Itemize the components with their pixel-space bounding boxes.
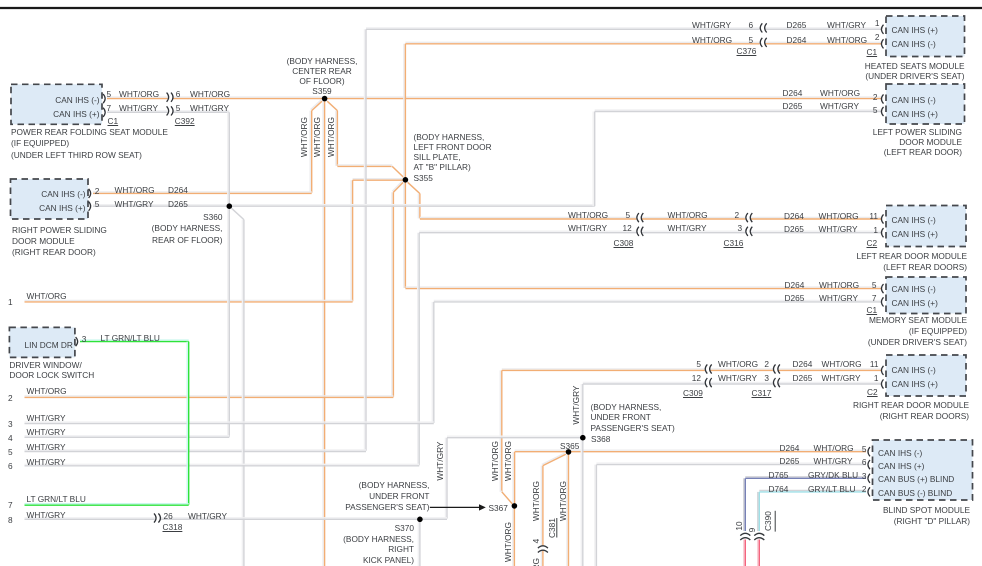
- wire WHT/ORG: S365 diagonal to C381 pin 4 off page bottom: [541, 453, 565, 566]
- pin bracket RRDM pin 1: [881, 379, 883, 388]
- label WHT/GRY blind row: [814, 456, 853, 466]
- module box: LEFT REAR DOOR MODULE: [886, 206, 966, 247]
- label WHT/GRY PRFSM row: [119, 103, 158, 113]
- label pin 4 C381: [531, 535, 541, 547]
- pin bracket LPSDM pin 5: [881, 107, 883, 116]
- label S360 (BODY HARNESS, REAR OF FLOOR): [123, 212, 223, 246]
- node 1 number: [8, 297, 13, 307]
- pin 2 blind: [861, 484, 867, 494]
- splice S360 dot: [227, 203, 233, 209]
- wire WHT/ORG: S365 down off page bottom: [567, 454, 569, 566]
- caption LEFT REAR DOOR MODULE: [800, 251, 967, 273]
- connector C390 pin 10 (vertical): [740, 533, 750, 540]
- label D264 RRDM: [793, 359, 813, 369]
- label WHT/GRY wire 6: [27, 457, 66, 467]
- pin bracket PRFSM pin 5: [103, 94, 105, 103]
- module box: BLIND SPOT MODULE: [873, 440, 973, 500]
- label CAN IHS (-) in LRDM: [892, 215, 936, 225]
- pin 5 RPSDM: [95, 199, 100, 209]
- wire WHT/ORG: S365 left corner down to S367: [513, 452, 515, 504]
- label C390: [763, 506, 773, 536]
- label LT GRN/LT BLU wire 7: [27, 494, 86, 504]
- pin 5 C309: [694, 359, 701, 369]
- label WHT/GRY wire 4: [27, 427, 66, 437]
- connector C308 pin 5 (WHT/ORG row): [636, 213, 643, 222]
- pin bracket Heated Seats pin 2: [881, 39, 883, 48]
- pin 7 memory: [871, 293, 877, 303]
- pin 5 C376: [749, 35, 754, 45]
- module box: DRIVER WINDOW/DOOR LOCK SWITCH (LIN DCM DR): [9, 327, 75, 357]
- wire D264 WHT/ORG: S365 bus to Blind Spot Module pin 5 (CAN IHS -): [515, 450, 866, 452]
- wire WHT/ORG: S359 right branch to S355: [326, 100, 403, 177]
- label D264 memory row: [785, 280, 805, 290]
- label WHT/ORG before C308: [568, 210, 608, 220]
- connector C376 pin 6 (WHT/GRY row): [760, 23, 767, 32]
- label D265 LRDM: [784, 224, 804, 234]
- node 7 number: [8, 500, 13, 510]
- connector C308 pin 12 (WHT/GRY row): [636, 227, 643, 236]
- label WHT/GRY after C309: [718, 373, 757, 383]
- label WHT/GRY wire 5: [27, 442, 66, 452]
- label CAN IHS (-) in RRDM: [892, 365, 936, 375]
- label WHT/GRY after C392: [190, 103, 229, 113]
- pin bracket RPSDM pin 2: [89, 189, 91, 198]
- wire WHT/GRY: Left Rear Door Module row (C308-12/C316-3/D265-1) down to wire 6: [25, 231, 882, 466]
- pin 3 C316: [738, 223, 743, 233]
- label CAN IHS (+) in LPSDM: [892, 109, 938, 119]
- pin bracket PRFSM pin 7: [103, 108, 105, 117]
- label S365 name: [560, 441, 579, 451]
- pin 2 heated: [874, 32, 880, 42]
- caption DRIVER WINDOW/DOOR LOCK SWITCH: [9, 361, 94, 381]
- connector C1 heated: [867, 47, 878, 57]
- caption MEMORY SEAT MODULE: [800, 315, 967, 348]
- label WHT/ORG vertical RRDM-S367: [490, 439, 500, 483]
- label LT GRN/LT BLU row 3: [101, 333, 160, 343]
- label WHT/GRY wire 3: [27, 413, 66, 423]
- wire D264 WHT/ORG: S355 up branch to Heated Seats Module pin 2 (CAN IHS -): [404, 42, 881, 177]
- pin bracket LRDM pin 11: [881, 214, 883, 223]
- pin 6 blind: [861, 457, 867, 467]
- label S368 (BODY HARNESS, UNDER FRONT PASSENGER'S SEAT): [591, 402, 675, 432]
- label WHT/ORG memory row: [819, 280, 859, 290]
- wire RD: below C390-10 off page bottom: [744, 540, 746, 566]
- label CAN IHS (+) in RRDM: [892, 379, 938, 389]
- connector C390 pin 9 (vertical): [754, 533, 764, 540]
- module box: MEMORY SEAT MODULE: [886, 277, 966, 314]
- wire WHT/GRY: S368 down off page bottom: [581, 440, 583, 566]
- pin 1 LRDM: [866, 225, 878, 235]
- connector label C316: [724, 238, 744, 248]
- label WHT/ORG vertical S365-S367: [503, 439, 513, 483]
- module box: RIGHT POWER SLIDING DOOR MODULE: [11, 179, 89, 219]
- label CAN IHS (-) in RPSDM: [18, 189, 86, 199]
- pin 1 heated: [874, 18, 880, 28]
- label CAN IHS (-) in Blind Spot Module: [878, 448, 922, 458]
- pin 2 C316: [735, 210, 740, 220]
- pin 12 C309: [690, 373, 701, 383]
- module box: HEATED SEATS MODULE: [886, 16, 965, 57]
- label WHT/ORG blind row: [814, 443, 854, 453]
- label D265 RPSDM row: [168, 199, 188, 209]
- pin bracket LPSDM pin 2: [881, 94, 883, 103]
- underline of C381 label: [556, 518, 558, 538]
- pin 5 C392: [176, 103, 181, 113]
- caption RIGHT POWER SLIDING DOOR MODULE: [12, 225, 107, 259]
- connector label C376: [737, 46, 757, 56]
- wire WHT/GRY: PRFSM C1-7 to C392-5 down to S360: [107, 111, 229, 204]
- label WHT/ORG after C309: [718, 359, 758, 369]
- label GRY/DK BLU blind row: [808, 470, 858, 480]
- connector C392 pin 6 (top row): [167, 93, 173, 102]
- label CAN IHS (-) in PRFSM: [20, 95, 100, 105]
- label D264 blind row: [780, 443, 800, 453]
- connector label C318: [163, 522, 183, 532]
- connector C317 pin 3 (WHT/GRY row): [773, 378, 780, 387]
- splice S370 dot: [417, 517, 423, 523]
- label LIN DCM DR in switch box: [25, 340, 73, 350]
- node 5 number: [8, 447, 13, 457]
- label CAN IHS (-) in LPSDM: [892, 95, 936, 105]
- label D265 RRDM: [793, 373, 813, 383]
- label CAN BUS (-) BLIND in Blind Spot Module: [878, 488, 952, 498]
- label WHT/GRY RPSDM row: [115, 199, 154, 209]
- label D265 blind row: [780, 456, 800, 466]
- label S367 name: [489, 503, 508, 513]
- label S370 (BODY HARNESS, RIGHT KICK PANEL): [314, 523, 414, 566]
- connector label C392: [175, 116, 195, 126]
- wire WHT/ORG: S355 lower-left diagonal to wire 2 (driver window switch): [25, 181, 404, 397]
- connector C316 pin 3 (WHT/GRY row): [745, 227, 752, 236]
- connector C318 pin 26 (wire 8): [154, 513, 160, 522]
- label WHT/ORG RPSDM row: [115, 185, 155, 195]
- pin 2 C317: [762, 359, 769, 369]
- label D765 blind row: [769, 470, 789, 480]
- node 3 number: [8, 419, 13, 429]
- wire D764 GRY/LT BLU: Blind Spot Module pin 2 (CAN BUS - BLIND) down to C390-9: [758, 490, 866, 531]
- pin bracket Memory Seat pin 7: [881, 297, 883, 306]
- connector label C309: [683, 388, 703, 398]
- module box: LEFT POWER SLIDING DOOR MODULE: [886, 84, 965, 124]
- module box: RIGHT REAR DOOR MODULE: [886, 355, 966, 396]
- label WHT/GRY heated row 2: [827, 20, 866, 30]
- label S368 name: [591, 434, 610, 444]
- label WHT/ORG after C392: [190, 89, 230, 99]
- pin 5 blind: [861, 444, 867, 454]
- pin bracket Blind Spot pin 3: [868, 474, 870, 483]
- label WHT/ORG vertical S359 branch 3: [325, 115, 335, 159]
- splice S365 dot: [566, 449, 572, 455]
- wire LT GRN/LT BLU: LIN DCM DR pin 3 to wire 7: [25, 340, 189, 505]
- node 2 number: [8, 393, 13, 403]
- wire D265 WHT/GRY: Blind Spot Module pin 6 (CAN IHS +) down off page: [595, 463, 866, 566]
- wire WHT/ORG: S355 lower-right diagonal to Left Rear Door Module row (C308-5/C316-2/D264-11): [407, 181, 882, 219]
- caption HEATED SEATS MODULE: [800, 61, 965, 81]
- wire WHT/GRY: Right Rear Door Module row (C309-12/C317-3/D265-1) down to S368: [581, 383, 881, 436]
- label WHT/GRY after C308: [668, 223, 707, 233]
- node 4 number: [8, 433, 13, 443]
- label WHT/ORG vertical C381 below (partial): [531, 556, 541, 566]
- label D764 blind row: [769, 484, 789, 494]
- top border line: [0, 7, 982, 9]
- pin 2 LPSDM: [872, 92, 878, 102]
- label WHT/ORG LPSDM row: [820, 88, 860, 98]
- caption LEFT POWER SLIDING DOOR MODULE: [800, 127, 962, 157]
- pin 3 blind: [861, 471, 867, 481]
- connector label C308: [614, 238, 634, 248]
- connector C381 pin 4 (vertical WHT/ORG): [538, 545, 548, 552]
- label CAN IHS (+) in Memory Seat Module: [892, 298, 938, 308]
- pin bracket Heated Seats pin 1: [881, 25, 883, 34]
- splice S367 dot: [512, 503, 518, 509]
- connector C1 PRFSM: [108, 116, 119, 126]
- wire WHT/GRY: wire 8 (C318-26) to S370 and riser corner: [25, 518, 448, 520]
- label WHT/ORG wire 2: [27, 386, 67, 396]
- wire D765 GRY/DK BLU: Blind Spot Module pin 3 (CAN BUS + BLIND) down to C390-10: [744, 477, 866, 531]
- wire D264 WHT/ORG bus: PRFSM C1-5 to C392-6 to S359 to LPSDM C2 (CAN IHS -): [107, 97, 881, 99]
- wire WHT/ORG: S367 down off page (C?): [513, 508, 515, 566]
- pin 2 RPSDM: [95, 186, 100, 196]
- label CAN IHS (-) in Memory Seat Module: [892, 284, 936, 294]
- label WHT/ORG vertical C381 above: [531, 479, 541, 523]
- pin bracket RPSDM pin 5: [89, 202, 91, 211]
- pin bracket LRDM pin 1: [881, 228, 883, 237]
- label D265 heated row: [787, 20, 807, 30]
- label D264 RPSDM row: [168, 185, 188, 195]
- pin bracket Memory Seat pin 5: [881, 284, 883, 293]
- wire WHT/ORG: Right Rear Door Module row (C309-5/C317-2/D264-11) down to S367: [500, 369, 881, 504]
- label CAN BUS (+) BLIND in Blind Spot Module: [878, 474, 954, 484]
- label CAN IHS (+) in RPSDM: [18, 203, 86, 213]
- pin 5 C308: [626, 210, 631, 220]
- connector label C317: [752, 388, 772, 398]
- pin 5 PRFSM: [107, 89, 112, 99]
- pin 12 C308: [623, 223, 632, 233]
- pin bracket Blind Spot pin 2: [868, 487, 870, 496]
- label WHT/ORG vertical S359 branch 2: [312, 115, 322, 159]
- wire WHT/GRY: S370 down off page bottom: [418, 522, 420, 566]
- pin 3 C317: [762, 373, 769, 383]
- pin bracket RRDM pin 11: [881, 366, 883, 375]
- wire WHT/ORG: S355 left to node 1 (wire 1): [25, 179, 404, 302]
- label WHT/ORG heated row 2: [827, 35, 867, 45]
- caption RIGHT REAR DOOR MODULE: [800, 400, 969, 423]
- label pin 10 C390: [733, 518, 743, 534]
- label D265 LPSDM row: [783, 101, 803, 111]
- label C381: [546, 513, 556, 543]
- connector C376 pin 5 (WHT/ORG row): [760, 38, 767, 47]
- label WHT/GRY RRDM: [822, 373, 861, 383]
- label WHT/GRY vertical S368 riser: [571, 383, 581, 427]
- splice S368 dot: [580, 435, 586, 441]
- label WHT/ORG heated row: [692, 35, 732, 45]
- label CAN IHS (+) in Blind Spot Module: [878, 461, 924, 471]
- pin 5 LPSDM: [872, 105, 878, 115]
- pin bracket Blind Spot pin 6: [868, 460, 870, 469]
- connector C309 pin 12 (WHT/GRY row): [705, 378, 712, 387]
- label WHT/ORG RRDM: [822, 359, 862, 369]
- label WHT/GRY before C308: [568, 223, 607, 233]
- wire WHT/GRY: S360 diagonal to C318 wire 8 crossing, off page bottom: [231, 207, 244, 566]
- arrow to splice S367: [430, 504, 486, 510]
- label S359 (BODY HARNESS, CENTER REAR OF FLOOR): [272, 56, 372, 96]
- wire WHT/GRY: S360 down to wire 4: [25, 209, 230, 437]
- pin 3 LIN DCM DR: [82, 334, 87, 344]
- label S355 (BODY HARNESS, LEFT FRONT DOOR SILL PLATE): [414, 132, 492, 182]
- label D265 memory row: [785, 293, 805, 303]
- label GRY/LT BLU blind row: [808, 484, 856, 494]
- label WHT/ORG vertical below S367: [503, 520, 513, 564]
- label WHT/ORG vertical S359 branch 1: [298, 115, 308, 159]
- label pin 9 C390: [747, 524, 757, 536]
- label CAN IHS (+) in Heated Seats Module: [892, 25, 938, 35]
- connector C2 RRDM: [867, 387, 878, 397]
- label CAN IHS (+) in PRFSM: [20, 109, 100, 119]
- wire D264 WHT/ORG: S355 center down to Memory Seat Module pin 5 (CAN IHS -): [404, 183, 881, 289]
- wire WHT/GRY: S368 left to S370 riser: [446, 436, 581, 518]
- node 6 number: [8, 461, 13, 471]
- pin 5 memory: [871, 280, 877, 290]
- label WHT/GRY LRDM: [819, 224, 858, 234]
- label WHT/GRY wire 8: [27, 510, 66, 520]
- label WHT/GRY heated row: [692, 20, 731, 30]
- pin bracket LIN DCM DR pin 3: [76, 337, 78, 346]
- pin 6 C392: [176, 89, 181, 99]
- splice S355 dot: [403, 177, 409, 183]
- label WHT/ORG after C308: [668, 210, 708, 220]
- splice S359 dot: [322, 96, 328, 102]
- label D264 heated row: [787, 35, 807, 45]
- label CAN IHS (-) in Heated Seats Module: [892, 39, 936, 49]
- caption BLIND SPOT MODULE: [800, 505, 970, 528]
- connector C317 pin 2 (WHT/ORG row): [773, 364, 780, 373]
- caption POWER REAR FOLDING SEAT MODULE: [11, 127, 168, 161]
- connector C1 memory: [867, 305, 878, 315]
- label WHT/ORG wire 1: [27, 291, 67, 301]
- wire WHT/ORG: S359 left branch down to RPSDM pin 2 (D264): [93, 100, 322, 193]
- connector C316 pin 2 (WHT/ORG row): [745, 213, 752, 222]
- module box: POWER REAR FOLDING SEAT MODULE: [11, 84, 102, 124]
- label WHT/GRY memory row: [819, 293, 858, 303]
- pin 1 RRDM: [867, 373, 879, 383]
- label WHT/GRY LPSDM row: [820, 101, 859, 111]
- wire WHT/ORG: S359 center branch down off page bottom: [323, 101, 325, 566]
- label D264 LPSDM row: [783, 88, 803, 98]
- pin 7 PRFSM: [107, 103, 112, 113]
- label CAN IHS (+) in LRDM: [892, 229, 938, 239]
- label WHT/ORG LRDM: [819, 211, 859, 221]
- pin 11 LRDM: [866, 211, 878, 221]
- wire D265 WHT/GRY: wire 3 up to Memory Seat Module pin 7 (CAN IHS +): [25, 300, 882, 423]
- node 8 number: [8, 515, 13, 525]
- wire D265 WHT/GRY: node 5 up to C376-6 and Heated Seats Module pin 1 (CAN IHS +): [25, 28, 882, 452]
- label WHT/ORG PRFSM row: [119, 89, 159, 99]
- label WHT/GRY vertical S370-S368 riser: [435, 439, 445, 483]
- label S367 arrow text (BODY HARNESS, UNDER FRONT PASSENGER'S SEAT): [330, 480, 430, 512]
- connector C2 LRDM: [867, 238, 878, 248]
- connector C392 pin 5 (bottom row): [167, 106, 173, 115]
- wire RD: below C390-9 off page bottom: [758, 540, 760, 566]
- pin 26 C318: [164, 511, 173, 521]
- label WHT/ORG vertical below S365: [558, 479, 568, 523]
- label WHT/GRY after C318: [188, 511, 227, 521]
- underline of C390 label: [774, 511, 776, 532]
- wire D265 WHT/GRY bus: RPSDM pin 5 through S360 to LPSDM pin 5 (CAN IHS +): [93, 110, 881, 206]
- pin 11 RRDM: [867, 359, 879, 369]
- label D264 LRDM: [784, 211, 804, 221]
- pin bracket Blind Spot pin 5: [868, 447, 870, 456]
- pin 6 C376: [749, 20, 754, 30]
- connector C309 pin 5 (WHT/ORG row): [705, 364, 712, 373]
